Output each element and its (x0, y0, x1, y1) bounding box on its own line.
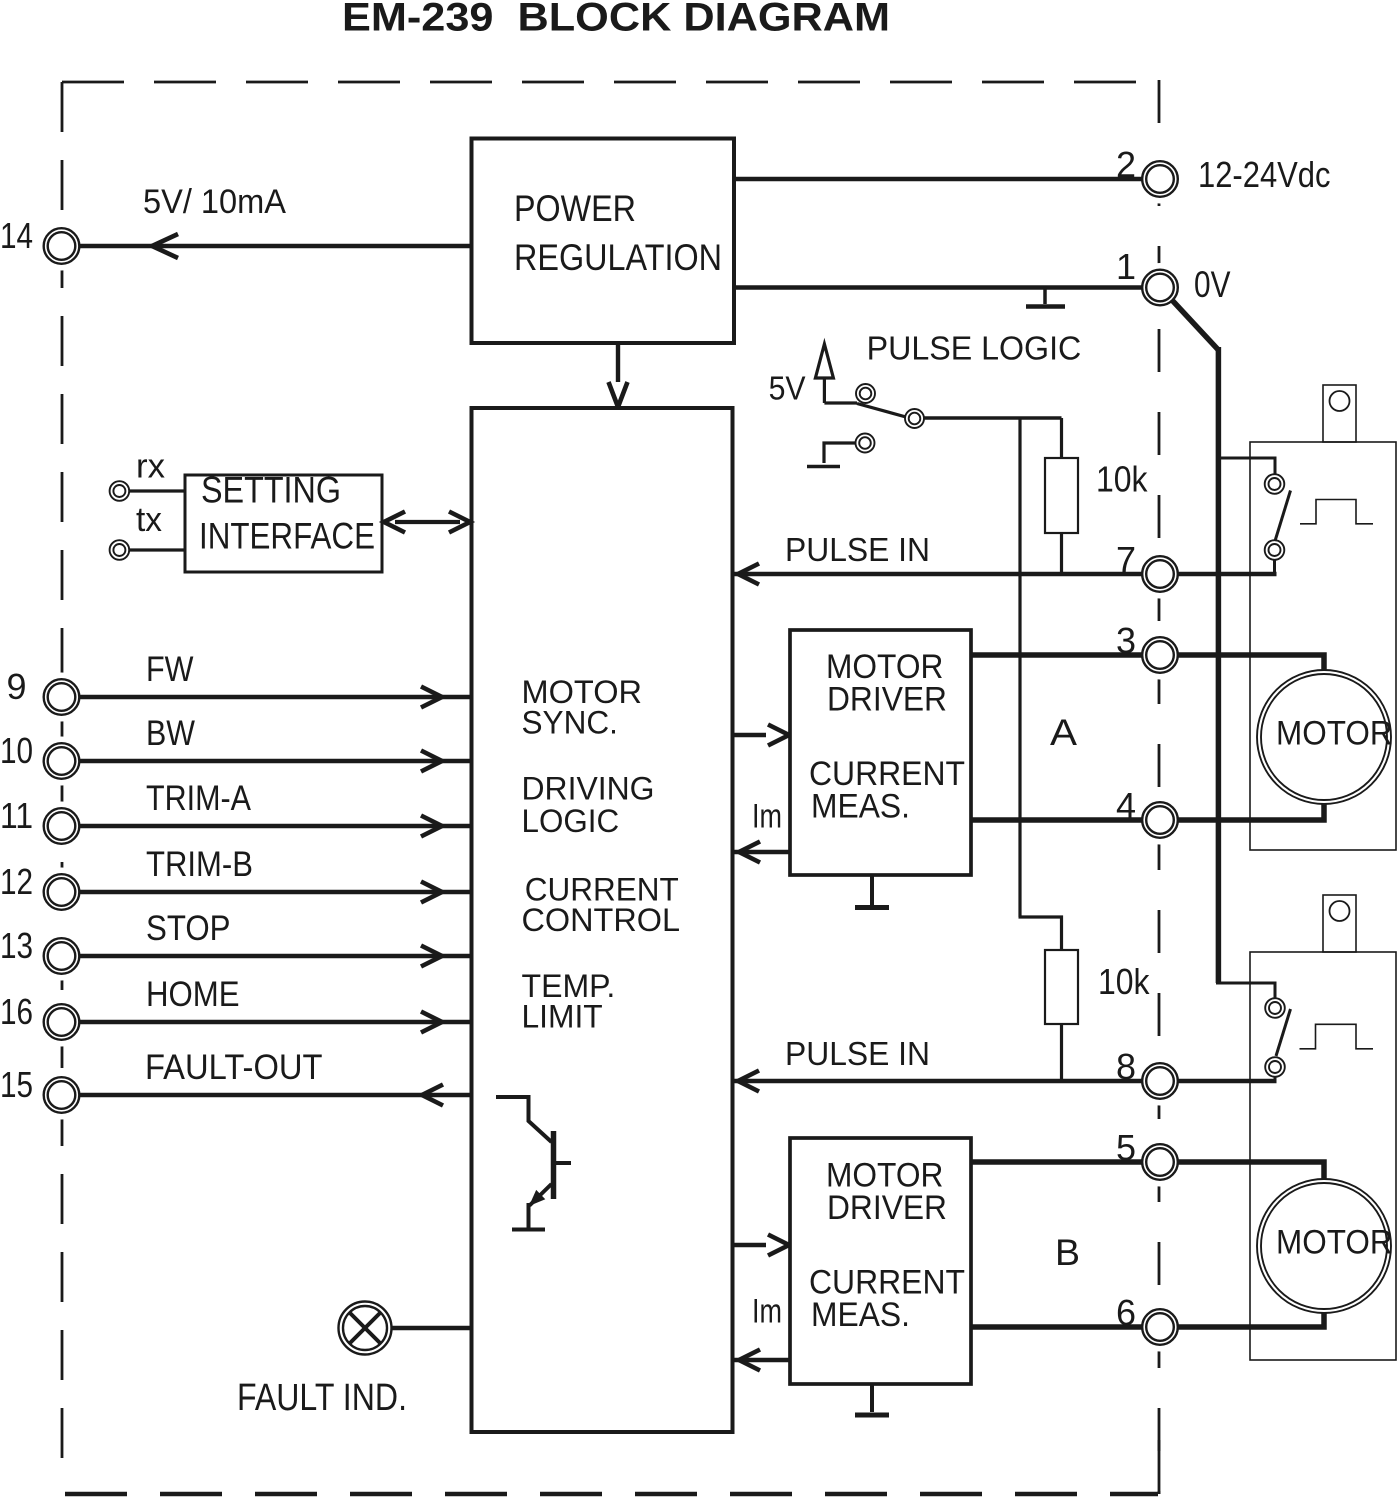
svg-text:MEAS.: MEAS. (811, 1296, 910, 1334)
terminal 14 (44, 228, 80, 264)
wire limit switch A to pulse in 7 (1273, 559, 1276, 576)
wire PULSE IN terminal 7 (734, 572, 1142, 576)
motor unit B mounting tab (1323, 895, 1356, 952)
svg-text:PULSE IN: PULSE IN (785, 1035, 930, 1072)
wire terminal 8 to switch B (1179, 1079, 1277, 1083)
svg-text:B: B (1055, 1232, 1080, 1273)
block MOTOR DRIVER A (790, 630, 971, 875)
svg-text:INTERFACE: INTERFACE (199, 516, 375, 557)
terminal 6 (1142, 1309, 1178, 1345)
wire pulse logic output (923, 416, 1062, 419)
svg-text:HOME: HOME (146, 975, 240, 1014)
resistor R1 10k (1045, 458, 1078, 533)
wire tx (130, 548, 186, 551)
svg-text:LOGIC: LOGIC (522, 803, 620, 839)
resistor R2 10k (1045, 950, 1078, 1024)
terminal halo masks (37, 222, 86, 271)
svg-text:11: 11 (0, 795, 33, 836)
svg-text:12-24Vdc: 12-24Vdc (1198, 154, 1331, 195)
wire FW input (80, 695, 472, 699)
svg-text:STOP: STOP (146, 909, 231, 948)
terminal 4 (1142, 802, 1178, 838)
svg-text:10k: 10k (1096, 459, 1148, 500)
wire terminal 1 0V (734, 285, 1142, 289)
wire rx (130, 489, 186, 492)
svg-text:0V: 0V (1194, 264, 1231, 305)
wire terminal 7 to switch A (1179, 572, 1277, 576)
wire PULSE IN terminal 8 (734, 1079, 1142, 1083)
terminal 5 (1142, 1144, 1178, 1180)
limit switch A top contact (1265, 474, 1285, 494)
motor B (1257, 1179, 1391, 1313)
enclosure dashed border bottom (65, 1492, 1158, 1497)
wire driver A to terminal 3 (971, 652, 1142, 658)
motor unit B housing (1250, 952, 1396, 1360)
svg-text:tx: tx (136, 501, 162, 539)
wire pull-up feed down (1018, 417, 1021, 918)
svg-text:TRIM-A: TRIM-A (146, 779, 252, 818)
block MOTOR DRIVER B (790, 1138, 971, 1384)
power 5V arrow symbol (815, 344, 833, 378)
wire logic to driver A (733, 733, 766, 737)
wire HOME input (80, 1020, 472, 1024)
terminal 3 (1142, 637, 1178, 673)
switch SW1 ground throw wire (824, 443, 856, 463)
svg-text:3: 3 (1116, 620, 1136, 661)
svg-text:PULSE LOGIC: PULSE LOGIC (867, 330, 1082, 367)
transistor Q1 emitter lead (527, 1203, 531, 1228)
svg-text:rx: rx (136, 448, 165, 486)
svg-text:10k: 10k (1098, 961, 1150, 1002)
svg-text:7: 7 (1116, 539, 1136, 580)
enclosure dashed border top (62, 81, 1158, 84)
wire 0V vertical feed bus (1216, 347, 1222, 983)
svg-text:2: 2 (1116, 144, 1136, 185)
node tx (110, 540, 130, 560)
wire TRIM-B input (80, 890, 472, 894)
wire bidirectional setting interface to logic (395, 520, 460, 524)
wire branch to motor B switch (1216, 983, 1275, 999)
svg-text:1: 1 (1116, 246, 1136, 287)
svg-text:15: 15 (0, 1064, 33, 1105)
svg-text:9: 9 (6, 666, 26, 707)
terminal 2 (1142, 161, 1178, 197)
limit switch B bottom contact (1265, 1057, 1285, 1077)
svg-text:MOTOR: MOTOR (1276, 714, 1393, 752)
svg-text:Im: Im (752, 1293, 782, 1331)
wire Im measurement A (733, 850, 790, 854)
svg-text:CONTROL: CONTROL (522, 902, 681, 938)
svg-text:REGULATION: REGULATION (514, 237, 722, 278)
svg-text:10: 10 (0, 730, 33, 771)
wire terminal 3 to motor A (1179, 655, 1325, 671)
transistor Q1 base lead (556, 1161, 571, 1165)
wire limit switch B to pulse in 8 (1274, 1076, 1277, 1083)
terminal 7 (1142, 556, 1178, 592)
arrow power regulation to logic block (616, 343, 620, 382)
svg-text:12: 12 (0, 861, 33, 902)
switch SW1 lever (857, 404, 906, 418)
wire 5V/10mA to terminal 14 (80, 244, 472, 248)
wire BW input (80, 759, 472, 763)
svg-text:DRIVER: DRIVER (827, 681, 947, 719)
svg-text:LIMIT: LIMIT (522, 998, 603, 1034)
terminal 13 (44, 938, 80, 974)
wire STOP input (80, 954, 472, 958)
switch SW1 common contact (856, 384, 875, 403)
wire terminal 6 to motor B (1179, 1312, 1325, 1327)
transistor Q1 base bar (551, 1131, 557, 1199)
svg-text:MOTOR: MOTOR (1276, 1223, 1393, 1261)
svg-text:5V: 5V (769, 369, 806, 406)
wire TRIM-A input (80, 824, 472, 828)
enclosure dashed border right (1158, 80, 1161, 1494)
svg-text:MEAS.: MEAS. (811, 788, 910, 826)
block motor control logic (472, 408, 733, 1432)
svg-text:6: 6 (1116, 1292, 1136, 1333)
node rx (110, 481, 130, 501)
lamp FAULT IND (339, 1302, 392, 1355)
wire branch to motor A switch (1216, 458, 1275, 475)
motor unit A mounting tab (1323, 385, 1356, 442)
wire driver B to terminal 5 (971, 1159, 1142, 1165)
svg-text:FW: FW (146, 650, 194, 689)
svg-text:4: 4 (1116, 785, 1136, 826)
svg-text:5: 5 (1116, 1127, 1136, 1168)
wire resistor R2 bottom (1060, 1024, 1063, 1081)
motor A (1257, 670, 1391, 804)
ground tick on 0V wire (1043, 288, 1047, 305)
svg-text:PULSE IN: PULSE IN (785, 531, 930, 568)
ground transistor emitter (512, 1228, 545, 1232)
svg-text:BW: BW (146, 714, 195, 753)
motor unit A housing (1250, 442, 1396, 850)
svg-text:16: 16 (0, 991, 33, 1032)
terminal 9 (44, 679, 80, 715)
limit switch A lever (1275, 491, 1291, 542)
ground driver A (870, 875, 874, 905)
svg-text:Im: Im (752, 798, 782, 836)
svg-text:TRIM-B: TRIM-B (146, 845, 253, 884)
svg-text:5V/ 10mA: 5V/ 10mA (143, 183, 286, 221)
limit switch B lever (1276, 1009, 1291, 1056)
svg-text:EM-239 BLOCK DIAGRAM: EM-239 BLOCK DIAGRAM (342, 0, 890, 40)
terminal 15 (44, 1077, 80, 1113)
svg-text:POWER: POWER (514, 188, 636, 229)
pulse waveform symbol B (1300, 1024, 1374, 1049)
wire fault lamp (391, 1326, 472, 1330)
transistor Q1 emitter with arrow (530, 1184, 552, 1206)
wire terminal 5 to motor B (1179, 1162, 1325, 1180)
svg-text:FAULT-OUT: FAULT-OUT (145, 1048, 323, 1087)
transistor Q1 collector lead (496, 1097, 552, 1142)
wire logic to driver B (733, 1243, 766, 1247)
wire resistor R1 bottom (1060, 533, 1063, 574)
wire driver B to terminal 6 (971, 1324, 1142, 1330)
svg-text:A: A (1050, 712, 1077, 753)
block POWER REGULATION (472, 139, 735, 344)
terminal 10 (44, 743, 80, 779)
terminal 1 (1142, 270, 1178, 306)
pulse waveform symbol A (1300, 500, 1373, 524)
wire FAULT-OUT output (80, 1093, 472, 1097)
svg-text:FAULT IND.: FAULT IND. (237, 1377, 407, 1419)
svg-text:DRIVER: DRIVER (827, 1189, 947, 1227)
wire driver A to terminal 4 (971, 817, 1142, 823)
svg-text:DRIVING: DRIVING (522, 770, 655, 806)
wire terminal 2 12-24Vdc (734, 177, 1142, 181)
terminal 16 (44, 1004, 80, 1040)
switch SW1 output contact (905, 409, 924, 428)
wire Im measurement B (733, 1358, 790, 1362)
terminal 8 (1142, 1063, 1178, 1099)
switch SW1 ground throw contact (856, 434, 875, 453)
terminal 11 (44, 808, 80, 844)
svg-text:SYNC.: SYNC. (522, 704, 618, 740)
svg-text:SETTING: SETTING (201, 470, 341, 511)
enclosure dashed border right bottom corner run (1158, 1440, 1161, 1494)
block SETTING INTERFACE (185, 475, 382, 572)
ground driver B (870, 1384, 874, 1412)
svg-text:8: 8 (1116, 1046, 1136, 1087)
wire 0V diagonal from terminal 1 (1171, 299, 1218, 350)
enclosure dashed border left (61, 82, 64, 1470)
wire terminal 4 to motor A (1179, 804, 1325, 820)
terminal 12 (44, 874, 80, 910)
svg-text:13: 13 (0, 925, 33, 966)
wire resistor R1 top (1060, 418, 1063, 458)
limit switch B top contact (1265, 998, 1285, 1018)
svg-text:14: 14 (0, 215, 33, 256)
limit switch A bottom contact (1265, 540, 1285, 560)
